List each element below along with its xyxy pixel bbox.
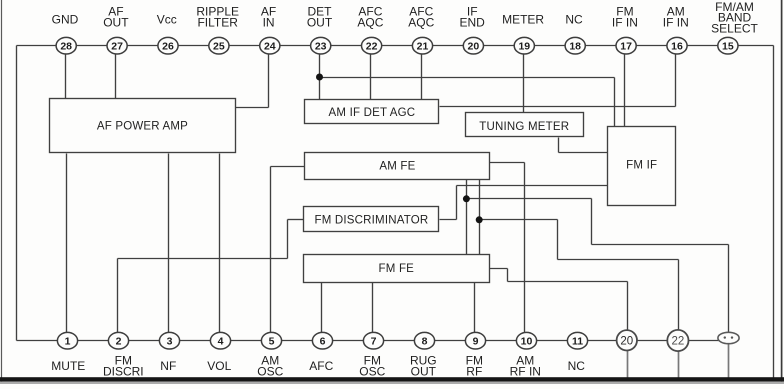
svg-text:RF: RF: [466, 365, 482, 379]
svg-text:NC: NC: [565, 13, 583, 27]
svg-text:26: 26: [162, 41, 174, 53]
svg-text:28: 28: [60, 41, 72, 53]
svg-text:AM FE: AM FE: [379, 161, 415, 173]
svg-text:22: 22: [366, 41, 378, 53]
svg-text:20: 20: [468, 41, 480, 53]
svg-text:SELECT: SELECT: [711, 22, 758, 36]
svg-text:AM IF DET AGC: AM IF DET AGC: [329, 107, 416, 119]
svg-text:AF POWER AMP: AF POWER AMP: [97, 121, 188, 133]
svg-text:FILTER: FILTER: [197, 16, 238, 30]
svg-text:END: END: [460, 16, 486, 30]
svg-text:NC: NC: [568, 359, 586, 373]
svg-text:MUTE: MUTE: [51, 359, 85, 373]
svg-text:OSC: OSC: [359, 365, 385, 379]
svg-text:FM DISCRIMINATOR: FM DISCRIMINATOR: [314, 215, 428, 227]
svg-text:METER: METER: [502, 13, 544, 27]
svg-text:17: 17: [620, 41, 632, 53]
svg-text:TUNING METER: TUNING METER: [479, 121, 569, 133]
svg-text:9: 9: [473, 336, 479, 348]
svg-text:10: 10: [521, 336, 533, 348]
svg-text:7: 7: [371, 336, 377, 348]
svg-text:15: 15: [722, 41, 734, 53]
svg-text:2: 2: [116, 336, 122, 348]
svg-text:FM IF: FM IF: [626, 160, 657, 172]
svg-text:AQC: AQC: [357, 16, 383, 30]
svg-text:20: 20: [620, 336, 633, 348]
svg-text:FM FE: FM FE: [379, 263, 415, 275]
svg-text:OUT: OUT: [411, 365, 437, 379]
svg-text:NF: NF: [160, 359, 176, 373]
svg-text:19: 19: [518, 41, 530, 53]
svg-text:11: 11: [572, 336, 583, 348]
svg-text:18: 18: [569, 41, 581, 53]
svg-text:AFC: AFC: [309, 359, 333, 373]
svg-text:8: 8: [422, 336, 428, 348]
svg-text:5: 5: [269, 336, 275, 348]
svg-text:IF IN: IF IN: [663, 16, 689, 30]
svg-text:1: 1: [65, 336, 71, 348]
svg-text:RF IN: RF IN: [510, 365, 541, 379]
svg-text:25: 25: [213, 41, 225, 53]
svg-text:6: 6: [320, 336, 326, 348]
svg-text:4: 4: [218, 336, 224, 348]
svg-text:IF IN: IF IN: [612, 16, 638, 30]
svg-text:DISCRI: DISCRI: [103, 365, 144, 379]
svg-text:22: 22: [672, 336, 685, 348]
svg-text:OSC: OSC: [257, 365, 283, 379]
svg-text:VOL: VOL: [207, 359, 231, 373]
svg-text:AQC: AQC: [408, 16, 434, 30]
svg-text:21: 21: [417, 41, 429, 53]
svg-text:OUT: OUT: [103, 16, 129, 30]
svg-text:24: 24: [264, 41, 276, 53]
svg-text:3: 3: [167, 336, 173, 348]
svg-text:23: 23: [315, 41, 327, 53]
svg-text:OUT: OUT: [307, 16, 333, 30]
svg-text:27: 27: [111, 41, 123, 53]
svg-text:16: 16: [671, 41, 683, 53]
svg-text:IN: IN: [263, 16, 275, 30]
svg-text:Vcc: Vcc: [157, 13, 177, 27]
svg-text:GND: GND: [52, 13, 79, 27]
